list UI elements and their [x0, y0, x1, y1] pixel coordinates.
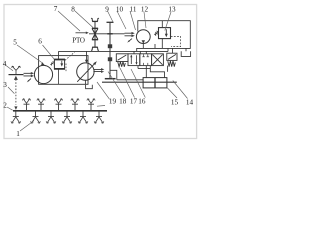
svg-text:7: 7 — [54, 5, 58, 13]
svg-text:6: 6 — [38, 38, 42, 46]
leader 2 — [7, 107, 13, 110]
svg-text:5: 5 — [13, 39, 17, 47]
lower sprinkler b4 — [62, 112, 72, 124]
wire to cylinder left chamber — [145, 69, 147, 78]
leader 8 — [75, 11, 93, 28]
universal joint top clamp — [92, 20, 98, 22]
directional valve 16: position box 1 — [128, 54, 140, 66]
leader 4 — [6, 66, 13, 71]
wire valve 13 bottom — [161, 39, 163, 49]
wire jog to cylinder right chamber — [150, 69, 164, 78]
leader 19 dash — [97, 105, 105, 108]
spring valve 6 — [50, 62, 54, 66]
lower sprinkler b6 — [94, 112, 104, 124]
pump frame box — [39, 56, 88, 85]
leader 15 — [167, 88, 177, 99]
leader 3 — [8, 87, 14, 94]
svg-text:19: 19 — [109, 98, 117, 106]
svg-text:PTO: PTO — [72, 37, 85, 45]
upper sprinkler a3 — [54, 99, 62, 111]
wire valve bottom ports — [138, 66, 150, 69]
gear mesh X on shaft A — [92, 28, 98, 39]
leader 11 — [130, 11, 136, 30]
svg-text:1: 1 — [16, 130, 20, 138]
drain tank under frame — [86, 85, 93, 89]
gear block 10 — [108, 44, 112, 48]
spring valve 13 — [154, 31, 158, 35]
wire linkage — [110, 70, 117, 80]
upper sprinkler a2 — [37, 99, 45, 111]
leader 18 — [108, 72, 125, 98]
wire main pressure line — [59, 50, 169, 52]
svg-text:10: 10 — [116, 6, 124, 14]
spring left — [118, 62, 126, 67]
node PTO arrow — [76, 32, 87, 34]
arrowhead at pump 5 top — [41, 62, 46, 66]
leader 10 — [117, 11, 126, 29]
leader lines — [6, 11, 188, 131]
wire shaft input line — [89, 33, 125, 35]
leader 6 — [43, 45, 55, 59]
svg-text:9: 9 — [105, 6, 109, 14]
border frame — [4, 5, 197, 139]
pump U12 circle — [136, 30, 150, 44]
position box 2 (center) — [140, 54, 152, 66]
leader 5 — [17, 45, 42, 63]
svg-text:17: 17 — [130, 98, 138, 106]
svg-text:18: 18 — [119, 98, 127, 106]
gear T-bar top — [107, 21, 114, 23]
lower sprinkler b2 — [31, 112, 41, 124]
gear block 11 — [108, 57, 112, 61]
svg-text:2: 2 — [3, 102, 7, 110]
wire housing to valve top — [168, 48, 173, 53]
drain arrow pump 12 — [129, 39, 132, 42]
shaft 9 (vertical shaft B) — [109, 22, 111, 78]
tank stub right — [185, 48, 187, 51]
svg-text:15: 15 — [171, 99, 179, 107]
double arrow into pump 5 — [24, 73, 32, 76]
cylinder 15 body — [143, 78, 167, 88]
upper sprinkler a1 — [22, 99, 30, 111]
tick at shaft crossing — [107, 33, 112, 35]
drain arrow pump 5 — [28, 79, 31, 82]
dashed pilot box 13 — [171, 36, 181, 46]
leader 17 — [120, 68, 135, 98]
arrow inside valve 6 — [61, 61, 63, 64]
leader 7 — [58, 11, 80, 31]
universal joint bottom clamp — [92, 46, 98, 48]
pump 7 circle (variable) — [77, 63, 94, 80]
spring right — [168, 61, 176, 67]
dashed pilot line valve 6 — [65, 52, 75, 60]
flow arrow inside pump 12 — [142, 40, 145, 44]
variable arrow through pump — [77, 63, 95, 81]
wire valve 13 feed — [161, 21, 163, 28]
dashed control line 3 — [15, 79, 17, 104]
lower sprinkler b5 — [78, 112, 88, 124]
leader 14 — [173, 81, 188, 99]
valve 6 feed wire — [58, 51, 60, 59]
pilot box right — [167, 53, 177, 60]
double arrow into pump 12 — [125, 33, 132, 36]
wire right port down — [167, 66, 169, 72]
port ticks valve top — [134, 51, 146, 53]
arrow inside valve 13 — [165, 29, 167, 34]
output double arrow — [93, 69, 101, 71]
svg-text:8: 8 — [71, 6, 75, 14]
wire header below valve — [138, 68, 150, 70]
svg-text:13: 13 — [168, 6, 176, 14]
svg-text:11: 11 — [130, 6, 137, 14]
svg-text:4: 4 — [3, 60, 7, 68]
wire valve 13 cavity drain — [154, 44, 156, 48]
linkage line — [117, 79, 143, 81]
sprinkler main pipe 2 — [13, 110, 107, 112]
upper sprinkler a5 — [87, 99, 95, 111]
upper sprinkler a4 — [71, 99, 79, 111]
wire pump 12 to housing bottom — [142, 44, 144, 49]
tank symbol — [181, 51, 190, 56]
leader 1 — [20, 121, 34, 131]
shaft 8 (vertical shaft A) — [94, 21, 96, 47]
feed to pump 7 (right pump) — [86, 51, 88, 60]
leader 12 — [144, 12, 146, 28]
suction strainer 4 — [9, 74, 24, 76]
svg-text:3: 3 — [3, 81, 7, 89]
svg-text:16: 16 — [138, 98, 146, 106]
piston rod — [102, 81, 177, 83]
valve V6 body — [54, 59, 64, 69]
housing enclosure around 12,13 — [137, 21, 191, 52]
pilot box left — [116, 54, 128, 62]
leader 19 — [97, 82, 110, 99]
leader 16 — [131, 69, 145, 98]
svg-text:12: 12 — [141, 6, 149, 14]
position box 3 with X — [152, 54, 164, 66]
leader 13 — [165, 12, 171, 31]
lower sprinkler b3 — [46, 112, 56, 124]
piston — [154, 78, 156, 88]
svg-text:14: 14 — [186, 99, 194, 107]
friction wheel T-bar bottom — [105, 78, 116, 80]
wire pump 7 drain — [84, 80, 86, 84]
valve V13 body — [159, 28, 171, 39]
lower sprinkler b1 — [11, 112, 21, 124]
pump 5 circle — [34, 65, 52, 83]
leader 9 — [108, 11, 114, 22]
